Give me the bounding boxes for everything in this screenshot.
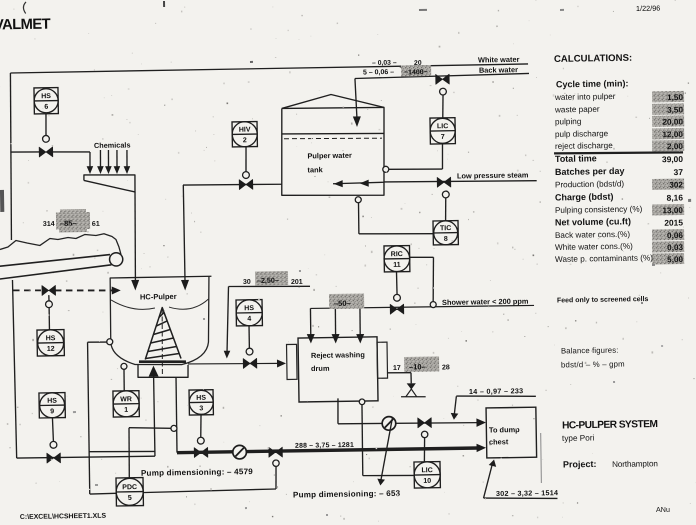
svg-text:White water cons.(%): White water cons.(%) (555, 242, 633, 252)
svg-text:5: 5 (128, 495, 132, 502)
svg-text:5 – 0,06 –: 5 – 0,06 – (363, 69, 394, 76)
svg-text:Balance figures:: Balance figures: (561, 346, 619, 356)
svg-text:61: 61 (92, 221, 100, 228)
svg-text:1: 1 (124, 407, 128, 414)
svg-text:–2,50–: –2,50– (257, 276, 279, 285)
svg-text:17: 17 (393, 365, 401, 372)
svg-text:12,00: 12,00 (662, 130, 683, 139)
svg-text:Reject washing: Reject washing (311, 350, 365, 360)
svg-text:pulping: pulping (555, 117, 582, 126)
svg-text:Feed only to screened cells: Feed only to screened cells (557, 296, 649, 304)
svg-text:C:\EXCEL\HCSHEET1.XLS: C:\EXCEL\HCSHEET1.XLS (20, 513, 107, 521)
svg-text:LIC: LIC (421, 467, 432, 474)
svg-text:To dump: To dump (489, 425, 520, 434)
svg-text:39,00: 39,00 (662, 154, 683, 164)
svg-text:RIC: RIC (391, 251, 403, 258)
svg-text:–85–: –85– (60, 219, 77, 228)
svg-text:HS: HS (244, 305, 254, 312)
svg-text:4: 4 (247, 316, 251, 323)
svg-text:HC-PULPER SYSTEM: HC-PULPER SYSTEM (562, 419, 658, 431)
svg-text:reject discharge: reject discharge (555, 141, 613, 151)
svg-text:8,16: 8,16 (667, 192, 684, 202)
svg-text:LIC: LIC (437, 123, 448, 130)
svg-text:pulp discharge: pulp discharge (555, 129, 609, 139)
svg-text:28: 28 (442, 364, 450, 371)
svg-text:2015: 2015 (664, 217, 683, 227)
svg-text:White water: White water (478, 55, 520, 65)
svg-text:8: 8 (444, 236, 448, 243)
svg-text:7: 7 (441, 134, 445, 141)
svg-text:Pump dimensioning: – 653: Pump dimensioning: – 653 (293, 489, 401, 500)
svg-text:10: 10 (423, 478, 431, 485)
svg-text:Northampton: Northampton (612, 459, 658, 469)
svg-text:tank: tank (307, 165, 323, 174)
svg-text:14 – 0,97 – 233: 14 – 0,97 – 233 (469, 386, 524, 396)
svg-text:Pulper water: Pulper water (307, 151, 352, 161)
svg-text:Net volume (cu.ft): Net volume (cu.ft) (555, 216, 631, 227)
svg-text:2: 2 (243, 137, 247, 144)
svg-text:Pulping consistency (%): Pulping consistency (%) (555, 205, 643, 215)
svg-text:– 0,03 –: – 0,03 – (372, 60, 397, 67)
svg-text:37: 37 (674, 167, 684, 177)
svg-text:302: 302 (669, 180, 683, 189)
svg-text:Batches per day: Batches per day (555, 166, 625, 177)
svg-text:HS: HS (47, 398, 57, 405)
svg-text:drum: drum (311, 364, 330, 373)
svg-text:CALCULATIONS:: CALCULATIONS: (554, 53, 632, 65)
svg-text:Production (bdst/d): Production (bdst/d) (555, 179, 625, 189)
svg-text:13,00: 13,00 (662, 206, 683, 215)
svg-text:HIV: HIV (239, 127, 251, 134)
svg-text:Charge (bdst): Charge (bdst) (555, 192, 614, 203)
svg-text:–50–: –50– (334, 299, 351, 308)
svg-text:0,03: 0,03 (667, 243, 684, 252)
svg-text:ANu: ANu (656, 505, 670, 514)
svg-text:HC-Pulper: HC-Pulper (140, 292, 177, 302)
svg-text:Shower water < 200 ppm: Shower water < 200 ppm (442, 297, 529, 307)
svg-text:type Pori: type Pori (562, 433, 595, 443)
svg-text:Back water cons.(%): Back water cons.(%) (555, 230, 630, 240)
svg-text:WR: WR (120, 396, 132, 403)
svg-text:Project:: Project: (563, 459, 597, 470)
svg-text:3: 3 (199, 405, 203, 412)
svg-text:11: 11 (393, 262, 401, 269)
svg-text:6: 6 (44, 104, 48, 111)
svg-text:20,00: 20,00 (662, 117, 683, 126)
svg-text:HS: HS (46, 335, 56, 342)
svg-text:288 – 3,75 – 1281: 288 – 3,75 – 1281 (295, 442, 354, 450)
svg-text:30: 30 (243, 279, 251, 286)
svg-text:302 – 3,32 – 1514: 302 – 3,32 – 1514 (496, 488, 558, 498)
svg-text:HS: HS (196, 395, 206, 402)
svg-text:Back water: Back water (479, 65, 518, 75)
svg-text:HS: HS (41, 93, 51, 100)
svg-text:Low pressure steam: Low pressure steam (457, 170, 529, 180)
svg-text:waste paper: waste paper (554, 105, 600, 115)
svg-text:3,50: 3,50 (667, 105, 684, 114)
svg-text:chest: chest (489, 437, 509, 446)
svg-text:PDC: PDC (122, 484, 137, 491)
svg-text:–10–: –10– (409, 362, 426, 371)
svg-text:TIC: TIC (440, 225, 451, 232)
svg-text:9: 9 (50, 408, 54, 415)
svg-text:5,00: 5,00 (667, 255, 684, 264)
svg-text:water into pulper: water into pulper (554, 92, 616, 102)
svg-text:−1400−: −1400− (404, 69, 428, 76)
svg-text:201: 201 (291, 279, 303, 286)
svg-text:Waste p. contaminants (%): Waste p. contaminants (%) (555, 253, 653, 264)
svg-text:2,00: 2,00 (667, 142, 684, 151)
svg-text:Pump dimensioning: – 4579: Pump dimensioning: – 4579 (141, 467, 253, 478)
svg-text:bdst/d – % – gpm: bdst/d – % – gpm (561, 359, 625, 369)
svg-text:Total time: Total time (555, 153, 597, 164)
svg-text:12: 12 (47, 346, 55, 353)
svg-text:314: 314 (43, 221, 55, 228)
svg-text:1,50: 1,50 (667, 93, 684, 102)
svg-text:0,06: 0,06 (667, 231, 684, 240)
svg-text:1/22/96: 1/22/96 (636, 4, 660, 13)
svg-text:Cycle time (min):: Cycle time (min): (556, 78, 629, 89)
svg-text:VALMET: VALMET (0, 17, 51, 34)
svg-text:Chemicals: Chemicals (94, 140, 131, 150)
